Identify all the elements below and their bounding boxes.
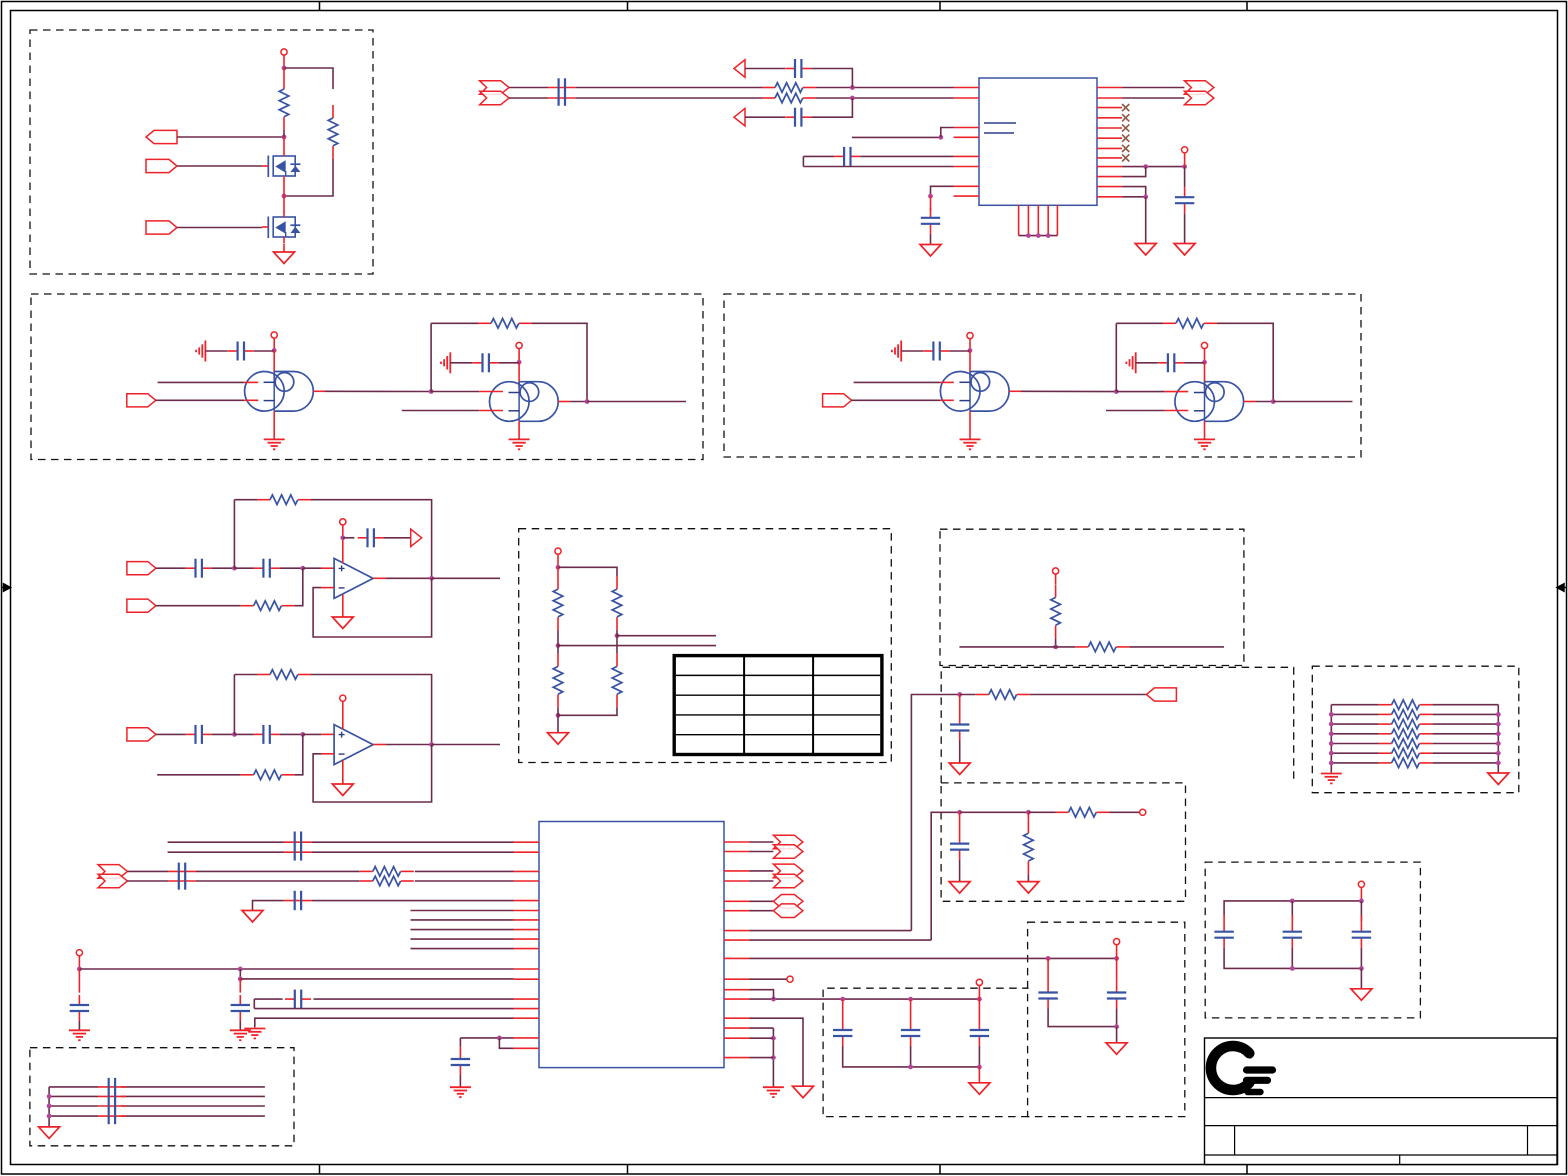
node junction A2 — [282, 135, 287, 140]
wire R4 to IC1 pin — [816, 97, 954, 99]
supply circle (box J) — [976, 979, 982, 985]
wire vcom branch — [253, 901, 284, 911]
wire R16 to net end — [1129, 646, 1224, 648]
wire P2 to Q1 gate — [177, 165, 262, 167]
title block row line 1 — [1205, 1097, 1558, 1099]
wire control bus 4 — [411, 938, 514, 940]
wire fb top right (C) — [532, 323, 587, 401]
wire pin 186 jog down — [1123, 187, 1146, 197]
supply circle VA — [281, 49, 287, 55]
wire node A1 to R2 branch — [284, 68, 333, 89]
wire node to buffer stem (C stage1) — [273, 350, 275, 377]
capacitor bias (D stage2) — [1158, 362, 1168, 364]
capacitor C4 (vref decoupling) — [1184, 187, 1186, 197]
wire box J bottom rail — [843, 1046, 980, 1067]
wire input lower (D stage2) — [1106, 410, 1165, 412]
capacitor C27 (supply decoupling) — [239, 995, 241, 1005]
wire buffer out (C stage2) — [558, 401, 570, 403]
IC1 internal mark line 2 — [984, 132, 1014, 134]
ladder resistor R21 — [1331, 733, 1378, 735]
resistor R4 (series lower) — [762, 97, 775, 99]
zone tick bottom 1 — [319, 1165, 321, 1175]
supply circle (IC2 left) — [76, 950, 82, 956]
wire K3 to C27 — [239, 979, 241, 993]
wire node E4 to ground — [557, 707, 559, 732]
resistor R9 (op2 feedback) — [257, 674, 270, 676]
wire fb top right (op2) — [311, 675, 432, 745]
wire opamp2 out — [373, 744, 386, 746]
ladder left junction — [1329, 741, 1334, 746]
ladder resistor R19 — [1331, 713, 1378, 715]
wire P4 upper to gang cap — [509, 87, 548, 89]
Cirrus Logic logo C-arc — [1211, 1046, 1249, 1090]
earth ground (D stage2) — [1194, 438, 1215, 440]
wire C8 to node op1-b — [280, 567, 303, 569]
node junction A3 — [282, 194, 287, 199]
op-amp U1 (receiver IC box) — [979, 78, 1097, 205]
wire buffer out (D stage2) — [1244, 401, 1256, 403]
wire node F1 to R16 — [1056, 646, 1076, 648]
wire node to buffer stem (D stage1) — [969, 350, 971, 377]
dashed box E (divider + table) — [519, 529, 892, 763]
wire node B7 to C6 — [930, 196, 932, 210]
ladder left junction — [1329, 722, 1334, 727]
wire buffer stem to ground (D stage1) — [969, 411, 971, 438]
gang capacitor C24 (line in) — [168, 870, 196, 872]
wire chassis to cap (C stage1) — [205, 350, 227, 352]
double port P17 (digital out pair 2) — [750, 870, 774, 872]
wire dgnd branch — [750, 1018, 804, 1086]
node junction op2-b — [300, 732, 305, 737]
wire box L line 4 — [49, 1115, 98, 1117]
transistor Q1 (NMOS) — [273, 156, 295, 176]
buffer amplifier (C stage1) — [274, 372, 313, 412]
wire node to C11 — [234, 733, 253, 735]
resistor R3 (series upper) — [762, 87, 775, 89]
node junction M3 — [1290, 966, 1295, 971]
wire op2 lower input — [157, 774, 240, 776]
wire P4 lower to gang cap — [509, 97, 548, 99]
node junction (D fb in) — [1114, 389, 1119, 394]
wire fb top left (op2) — [234, 674, 257, 676]
node junction op1-a — [232, 566, 237, 571]
ladder right junction — [1496, 751, 1501, 756]
wire supply drop (D stage1) — [969, 339, 971, 351]
ladder resistor R23 — [1331, 752, 1378, 754]
node junction op1-b — [300, 566, 305, 571]
wire IC2 pin to box J rail — [750, 998, 980, 1000]
settings table outline — [674, 656, 882, 755]
capacitor C14 (bulk 1) — [1223, 915, 1225, 922]
wire ref pair vertical — [253, 999, 255, 1009]
ladder left bus — [1330, 705, 1332, 773]
dashed box M (bulk caps 3x) — [1205, 862, 1420, 1018]
wire Q2 source to ground — [283, 244, 285, 253]
wire R12 to node E3 — [616, 630, 618, 636]
node junction op1-sup — [340, 535, 345, 540]
capacitor C5 (series) — [834, 155, 844, 157]
wire rail lower (IC2 left) — [240, 978, 513, 980]
resistor R5 (C feedback) — [478, 322, 491, 324]
chassis ground (C stage2) — [449, 352, 451, 373]
box L bus junction — [47, 1114, 52, 1119]
node junction F1 — [1053, 645, 1058, 650]
wire P9 to buffer (D stage1) — [851, 399, 940, 401]
wire channel A output — [587, 401, 686, 403]
node junction B5 — [1143, 194, 1148, 199]
resistor R14 (divider LR) — [616, 653, 618, 666]
node junction B4 — [1182, 164, 1187, 169]
wire node N1 to node N2 — [960, 811, 1029, 813]
buffer amplifier (C stage2) — [519, 382, 558, 422]
wire K2 jog down — [239, 969, 241, 979]
capacitor C7 (series input 1) — [186, 567, 196, 569]
table column line 1 — [743, 656, 745, 755]
wire control bus 3 — [411, 929, 514, 931]
wire fb top left (C) — [431, 322, 478, 324]
port P2 (gate drive 1) — [146, 159, 177, 172]
wire box I bottom rail — [1048, 1009, 1117, 1027]
wire box L line 2 — [49, 1095, 98, 1097]
ground (vref) — [1174, 244, 1195, 256]
IC1 NC pin stubs — [1097, 107, 1122, 109]
wire R3 to IC1 pin — [816, 87, 954, 89]
wire P13 to C10 — [156, 733, 186, 735]
capacitor bias (C stage1) — [228, 350, 238, 352]
wire C5 to pin — [860, 155, 953, 157]
dashed box J (decoupling caps 3x) — [823, 988, 1029, 1116]
dashed box I (decoupling caps 2x) — [1028, 922, 1185, 1116]
wire supply drop (D stage2) — [1204, 349, 1206, 363]
node junction J3 — [977, 997, 982, 1002]
wire IC1 out upper to port — [1123, 87, 1185, 89]
wire control bus 5 — [411, 948, 514, 950]
capacitor C21 (decoupling) — [978, 999, 980, 1020]
wire node op1-b to opamp+ — [303, 567, 321, 569]
resistor R16 (bias series) — [1075, 646, 1088, 648]
wire C18 to bottom rail — [1116, 1009, 1118, 1027]
wire buffer stem to ground (C stage1) — [273, 411, 275, 438]
wire fb top right (op1) — [311, 500, 432, 579]
port P3 (gate drive 2) — [146, 221, 177, 234]
wire from IC2 via riser (box N) — [931, 812, 959, 940]
ground (IC1 left) — [920, 245, 941, 257]
resistor R25 (supply series) — [1056, 811, 1069, 813]
title block divider row3 right — [1527, 1126, 1529, 1155]
node junction J5 — [977, 1065, 982, 1070]
wire bottom rail (divider) — [558, 707, 617, 715]
double port P18 (bidirectional pair) — [750, 900, 774, 902]
op-amp U3 — [334, 725, 373, 765]
node junction K2 — [238, 967, 243, 972]
wire tap upper — [617, 635, 716, 637]
wire R15 to node F1 — [1055, 638, 1057, 647]
wire filt pair upper — [460, 1037, 513, 1039]
wire node N2 to R26 — [1027, 812, 1029, 820]
port P12 (opamp1 tap out) — [411, 529, 422, 547]
ground (bulk caps) — [1351, 989, 1372, 1001]
wire cap to R3 — [576, 87, 762, 89]
ground (ladder right) — [1488, 773, 1509, 785]
resistor R1 (left vertical) — [283, 68, 285, 76]
capacitor C8 (series input 2) — [254, 567, 264, 569]
ladder left junction — [1329, 751, 1334, 756]
title block row line 3 — [1205, 1154, 1558, 1156]
node junction E4 — [556, 713, 561, 718]
wire ref pair upper — [254, 998, 282, 1000]
wire C15 to bottom rail — [1291, 948, 1293, 969]
earth ground (C29) — [450, 1086, 471, 1088]
wire cap to node (C stage1) — [254, 350, 274, 352]
node junction B1 — [850, 85, 855, 90]
wire supply drop (box I) — [1116, 945, 1118, 959]
ground (dgnd) — [793, 1086, 814, 1098]
wire input upper (D stage2) — [1116, 391, 1164, 393]
node junction J4 — [908, 1065, 913, 1070]
wire P8 to buffer (C stage1) — [155, 399, 244, 401]
wire tap lower — [558, 645, 716, 647]
chassis ground (D stage1) — [900, 341, 902, 362]
wire ref pair lower — [254, 1008, 513, 1010]
wire supply to node E1 — [557, 554, 559, 567]
capacitor C16 (bulk 3) — [1360, 901, 1362, 922]
capacitor bias (C stage2) — [473, 362, 483, 364]
supply circle (bias) — [1053, 568, 1059, 574]
op-amp U2 — [334, 558, 373, 598]
zone tick bottom 4 — [1246, 1165, 1248, 1175]
ladder right junction — [1496, 712, 1501, 717]
wire node A3 to Q2 drain — [283, 196, 285, 212]
capacitor C12 (out filter) — [959, 715, 961, 725]
ladder resistor R18 — [1331, 704, 1378, 706]
wire riser to box G — [750, 930, 912, 932]
node junction K5 — [771, 1036, 776, 1041]
chassis ground (D stage2) — [1135, 352, 1137, 373]
capacitor C10 (series input 1) — [186, 733, 196, 735]
ladder left junction — [1329, 731, 1334, 736]
wire fb top left (D) — [1116, 322, 1163, 324]
resistor R6 (D feedback) — [1163, 322, 1176, 324]
node junction K4 — [497, 1036, 502, 1041]
wire supply to node — [283, 55, 285, 68]
wire input lower (C stage2) — [402, 410, 479, 412]
IC2 right pin stubs — [724, 841, 750, 843]
Cirrus Logic logo bar 1 — [1247, 1066, 1273, 1073]
node junction E3 — [615, 633, 620, 638]
node junction M2 — [1359, 899, 1364, 904]
node junction (D stage1 bias) — [968, 348, 973, 353]
wire opamp1 out to net end — [432, 577, 500, 579]
wire R26 to ground — [1027, 874, 1029, 881]
node junction K1 — [77, 967, 82, 972]
box L bus junction — [47, 1104, 52, 1109]
wire box L line 3 — [49, 1105, 98, 1107]
IC1 bottom pin stubs — [1018, 205, 1020, 235]
wire op1 inverting loop — [321, 587, 334, 589]
wire C7 to node — [212, 567, 235, 569]
dashed box C (buffer channel A) — [31, 294, 703, 460]
capacitor C9 (output tap) — [358, 537, 368, 539]
IC2 left pin stubs — [514, 841, 540, 843]
zone tick bottom 2 — [627, 1165, 629, 1175]
capacitor C26 (supply decoupling) — [78, 995, 80, 1005]
node junction J0 — [771, 997, 776, 1002]
wire P3 to Q2 gate — [177, 227, 262, 229]
resistor R27 (line in upper) — [360, 870, 373, 872]
wire node B6 up to pin 127 — [941, 128, 954, 138]
wire pin 186 jog (left side) — [931, 186, 954, 196]
double port P15 (line in pair) — [98, 865, 128, 879]
node junction (D out) — [1271, 399, 1276, 404]
wire fb left vertical (op2) — [233, 675, 235, 735]
wire C16 to bottom rail — [1360, 948, 1362, 969]
node junction B6 — [938, 135, 943, 140]
earth ground (ladder left) — [1321, 773, 1342, 775]
ground (box N cap) — [949, 882, 970, 894]
port P13 (opamp2 input+) — [127, 728, 156, 741]
resistor R12 (divider UR) — [616, 576, 618, 589]
node junction N1 — [957, 810, 962, 815]
table column line 2 — [812, 656, 814, 755]
node junction (C out) — [585, 399, 590, 404]
double port P16 (digital out pair 1) — [750, 841, 774, 843]
node junction op2-out — [429, 742, 434, 747]
wire supply drop (C stage2) — [518, 349, 520, 363]
wire AC pair lower — [168, 851, 284, 853]
capacitor C28 (ref series) — [285, 998, 295, 1000]
wire bulk top rail — [1224, 901, 1361, 915]
wire P1 to node A2 — [177, 136, 284, 138]
port P14 (analog out) — [1146, 688, 1176, 701]
ladder resistor R20 — [1331, 723, 1378, 725]
wire node to buffer stem (D stage2) — [1204, 362, 1206, 388]
ladder left junction — [1329, 712, 1334, 717]
node junction N2 — [1026, 810, 1031, 815]
wire buffer stem to ground (C stage2) — [518, 421, 520, 438]
buffer amplifier (D stage1) — [970, 372, 1009, 412]
node junction G1 — [957, 692, 962, 697]
ground (op2) — [332, 784, 353, 796]
wire buffer out (D stage1) — [1009, 390, 1021, 392]
wire input upper (C stage2) — [431, 391, 479, 393]
wire C21 to bottom rail — [978, 1046, 980, 1067]
ladder right junction — [1496, 731, 1501, 736]
wire chassis to cap (C stage2) — [450, 362, 472, 364]
dashed box D (buffer channel B) — [724, 294, 1361, 457]
bottom tie junction 2 — [1036, 233, 1041, 238]
wire Q1 source to node A3 — [283, 182, 285, 196]
wire input upper (D stage1) — [854, 381, 941, 383]
resistor R7 (op1 feedback) — [257, 499, 270, 501]
wire R25 to supply circle — [1110, 811, 1140, 813]
resistor R13 (divider LL) — [557, 646, 559, 654]
gang capacitor C22 (4x feedthrough) — [98, 1086, 126, 1088]
node junction (C fb in) — [429, 389, 434, 394]
wire node A2 to Q1 drain — [283, 137, 285, 150]
node junction M4 — [1359, 966, 1364, 971]
wire C2 to node B1 — [811, 69, 852, 88]
supply circle (D stage2) — [1201, 342, 1207, 348]
wire AC pair upper — [168, 841, 284, 843]
earth ground (D stage1) — [960, 438, 981, 440]
node junction I1 — [1046, 956, 1051, 961]
node junction op1-out — [429, 576, 434, 581]
wire sup node to C9 — [343, 537, 355, 539]
IC1 bottom tie bar — [1019, 235, 1058, 237]
supply circle (D stage1) — [967, 333, 973, 339]
IC1 left pin stubs — [954, 87, 980, 89]
resistor R17 (series out) — [976, 694, 989, 696]
resistor R10 (op2 inverting) — [241, 774, 254, 776]
wire C11 to node op2-b — [280, 733, 303, 735]
wire R1 bottom to node A2 — [283, 130, 285, 137]
wire gnd bus jog 3 — [750, 1057, 774, 1059]
wire node G1 to C12 — [959, 695, 961, 715]
wire fb top left (op1) — [234, 499, 257, 501]
wire opamp2 to ground — [342, 760, 344, 784]
dashed box A (MOSFET mute circuit) — [30, 30, 373, 274]
wire P6 to C3 — [745, 116, 785, 118]
wire P5 to C2 — [745, 68, 785, 70]
wire buffer out (C stage1) — [313, 390, 325, 392]
wire node G1 to R17 — [960, 694, 976, 696]
zone tick top 4 — [1246, 2, 1248, 11]
capacitor C19 (decoupling) — [842, 999, 844, 1020]
earth ground (IC2 gnd bus) — [763, 1086, 784, 1088]
node junction M1 — [1290, 899, 1295, 904]
wire supply to opamp (op2) — [342, 701, 344, 729]
wire C3 to node B2 — [811, 98, 852, 117]
wire supply to R15 — [1055, 574, 1057, 584]
node junction J1 — [840, 997, 845, 1002]
Cirrus Logic logo bar 2 — [1247, 1077, 1268, 1084]
ground (vcom) — [242, 911, 263, 923]
ground (IC1 right) — [1135, 244, 1156, 256]
wire U-net lower — [803, 166, 953, 168]
left mid zone arrow — [2, 584, 11, 591]
wire R2 bottom to node A3 — [284, 159, 333, 196]
ladder resistor R22 — [1331, 743, 1378, 745]
capacitor bias (D stage1) — [924, 350, 934, 352]
ground (box I) — [1106, 1043, 1127, 1055]
ladder right junction — [1496, 761, 1501, 766]
wire P11 to R8 — [156, 605, 241, 607]
ground (box J) — [969, 1083, 990, 1095]
port P10 (opamp1 input+) — [127, 562, 156, 575]
bottom tie junction 3 — [1046, 233, 1051, 238]
wire gnd bus vertical — [772, 1028, 774, 1086]
ground (op1) — [332, 617, 353, 629]
wire supply VB drop — [1184, 153, 1186, 167]
wire agnd branch — [255, 1018, 514, 1027]
dashed box L (output connector filter) — [30, 1048, 294, 1146]
resistor R8 (op1 inverting) — [241, 605, 254, 607]
wire bottom rail to ground (bulk) — [1360, 968, 1362, 988]
wire riser to box N — [750, 939, 932, 941]
node junction (C stage2 bias) — [517, 360, 522, 365]
dashed box N (supply RC filter) — [941, 783, 1185, 901]
zone tick top 2 — [627, 2, 629, 11]
wire line-in upper — [128, 870, 169, 872]
ladder right junction — [1496, 722, 1501, 727]
wire K4 jog down — [499, 1038, 513, 1048]
port P1 (mute out, left-pointing) — [146, 130, 177, 143]
supply circle (box I) — [1114, 939, 1120, 945]
wire node B4 to C4 — [1184, 167, 1186, 188]
node junction (D stage2 bias) — [1202, 360, 1207, 365]
wire control bus 2 — [411, 919, 514, 921]
node junction E2 — [556, 643, 561, 648]
